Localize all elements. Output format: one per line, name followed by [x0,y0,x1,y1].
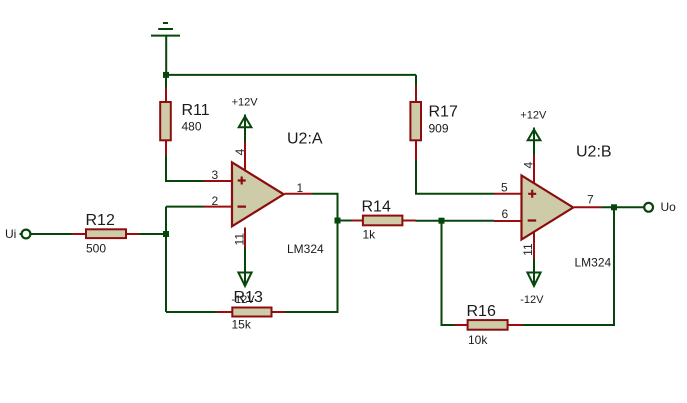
wire R11 bottom to pin3 [166,156,204,182]
node R14 right junction [439,218,445,224]
power -12V symbol B [527,273,540,287]
power +12V symbol B [528,128,541,141]
wire R14 right to pin6 [416,220,495,222]
resistor R16 leads [455,324,523,326]
resistor R12 leads [72,233,140,235]
op-amp U2:B [522,176,574,240]
resistor R17 leads [415,86,417,161]
resistor R11 leads [165,88,167,156]
wire top rail [165,74,416,76]
svg-text:6: 6 [502,207,509,221]
wire R17 bottom to pin5 [416,160,494,194]
svg-text:4: 4 [233,148,247,155]
svg-text:R12: R12 [86,212,115,229]
svg-text:U2:A: U2:A [287,131,323,148]
wire R12 to bus [140,233,168,235]
node R12 bus junction [163,231,169,237]
node top-left junction [163,72,169,78]
wire pin7 to Uo [601,206,644,208]
svg-text:Ui: Ui [5,227,16,241]
wire Ui to R12 [31,233,73,235]
svg-text:2: 2 [212,194,219,208]
resistor R11 [160,102,171,140]
svg-text:4: 4 [522,162,536,169]
wire pin2 row [166,206,204,208]
svg-text:+12V: +12V [520,109,547,121]
resistor R12 [86,229,126,238]
wire R16 right to output vertical [523,207,614,325]
wire U2:B pin11 stub [533,259,535,284]
svg-text:-12V: -12V [231,294,255,306]
ground [151,23,180,75]
svg-text:-12V: -12V [520,294,544,306]
resistor R13 leads [217,311,285,313]
wire U2:A pin11 stub [244,248,246,284]
svg-text:11: 11 [232,233,246,246]
terminal Uo [644,203,653,212]
svg-text:500: 500 [86,242,106,256]
svg-text:7: 7 [587,193,594,207]
wire U2:A pin4 stub [244,128,246,143]
svg-text:LM324: LM324 [575,255,612,269]
resistor R14 [363,216,403,226]
svg-text:1: 1 [297,181,304,195]
wire bus to R13 [166,311,217,313]
resistor R14 leads [352,220,416,222]
power -12V symbol A [238,273,251,287]
svg-text:11: 11 [521,243,535,256]
svg-text:10k: 10k [468,333,488,347]
wire R17 top stub [415,75,417,86]
svg-text:R16: R16 [467,303,496,320]
op-amp U2:B pin leads [494,155,601,259]
op-amp U2:A [232,162,284,226]
resistor R16 [468,320,508,330]
resistor R13 [232,308,271,317]
svg-text:R14: R14 [362,199,391,216]
svg-text:LM324: LM324 [287,242,324,256]
resistor R17 [410,102,421,140]
node output junction [611,204,617,210]
svg-text:5: 5 [501,181,508,195]
svg-text:R17: R17 [429,104,458,121]
wire left vertical bus [165,207,167,312]
svg-text:R11: R11 [182,102,210,119]
svg-text:U2:B: U2:B [576,144,612,161]
svg-text:909: 909 [429,122,449,136]
node pin1 feedback junction [335,218,341,224]
wire R11 top stub [165,75,167,88]
svg-text:1k: 1k [363,228,377,242]
svg-text:15k: 15k [232,318,252,332]
wire junction down to R16 [442,221,456,325]
wire R13 to feedback vertical [285,194,338,312]
op-amp U2:A pin leads [204,142,312,248]
power +12V symbol A [239,115,252,128]
terminal Ui [20,233,22,235]
wire R14 left stub [338,220,353,222]
svg-text:3: 3 [212,168,219,182]
svg-text:+12V: +12V [232,96,259,108]
wire U2:B pin4 stub [533,141,535,156]
svg-text:480: 480 [182,120,202,134]
svg-text:Uo: Uo [661,200,677,214]
